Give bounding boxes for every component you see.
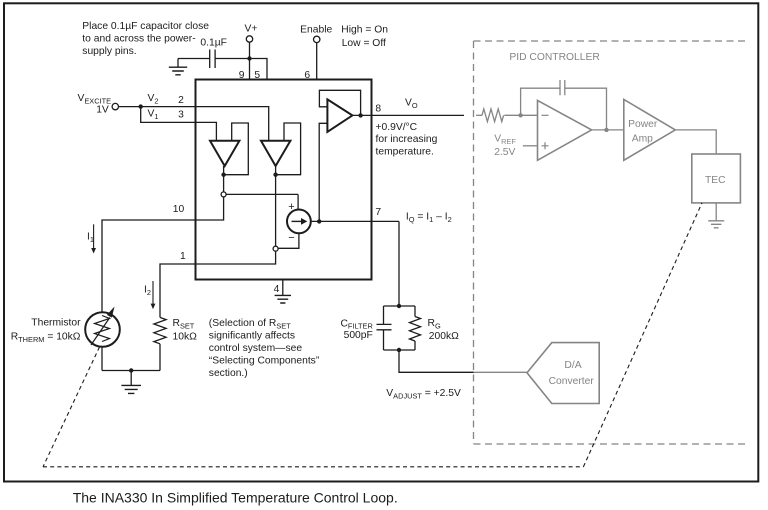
svg-text:D/A: D/A [564,360,581,371]
svg-text:−: − [288,232,294,244]
svg-text:Converter: Converter [549,376,595,387]
svg-text:6: 6 [304,70,310,81]
svg-text:+: + [288,201,294,213]
svg-text:Place 0.1µF capacitor close: Place 0.1µF capacitor close [82,21,209,32]
svg-text:to and across the power-: to and across the power- [82,34,195,45]
svg-text:The INA330 In Simplified Tempe: The INA330 In Simplified Temperature Con… [73,490,398,506]
svg-text:Low = Off: Low = Off [342,38,386,49]
svg-text:significantly affects: significantly affects [209,331,295,342]
svg-text:PID CONTROLLER: PID CONTROLLER [509,52,599,63]
svg-text:section.): section.) [209,368,248,379]
svg-text:+0.9V/°C: +0.9V/°C [376,122,418,133]
svg-text:temperature.: temperature. [376,146,434,157]
svg-text:Power: Power [628,119,658,130]
svg-text:“Selecting Components”: “Selecting Components” [209,355,320,366]
svg-text:8: 8 [375,104,381,115]
svg-text:5: 5 [254,70,260,81]
svg-text:for increasing: for increasing [376,134,438,145]
svg-text:High = On: High = On [341,24,388,35]
svg-text:10kΩ: 10kΩ [173,331,198,342]
svg-text:7: 7 [375,207,381,218]
svg-text:1: 1 [180,251,186,262]
svg-text:supply pins.: supply pins. [82,46,136,57]
svg-text:1V: 1V [96,105,109,116]
svg-text:V+: V+ [244,24,257,35]
svg-text:500pF: 500pF [344,330,373,341]
svg-text:0.1µF: 0.1µF [200,38,227,49]
svg-text:TEC: TEC [705,175,726,186]
svg-text:2: 2 [178,95,184,106]
svg-text:control system—see: control system—see [209,343,303,354]
svg-text:4: 4 [274,284,280,295]
svg-text:200kΩ: 200kΩ [429,331,459,342]
svg-text:3: 3 [178,110,184,121]
svg-text:Amp: Amp [632,134,653,145]
svg-text:2.5V: 2.5V [494,147,515,158]
svg-text:9: 9 [239,70,245,81]
svg-text:10: 10 [173,204,185,215]
svg-text:Enable: Enable [300,24,332,35]
svg-text:Thermistor: Thermistor [31,318,81,329]
